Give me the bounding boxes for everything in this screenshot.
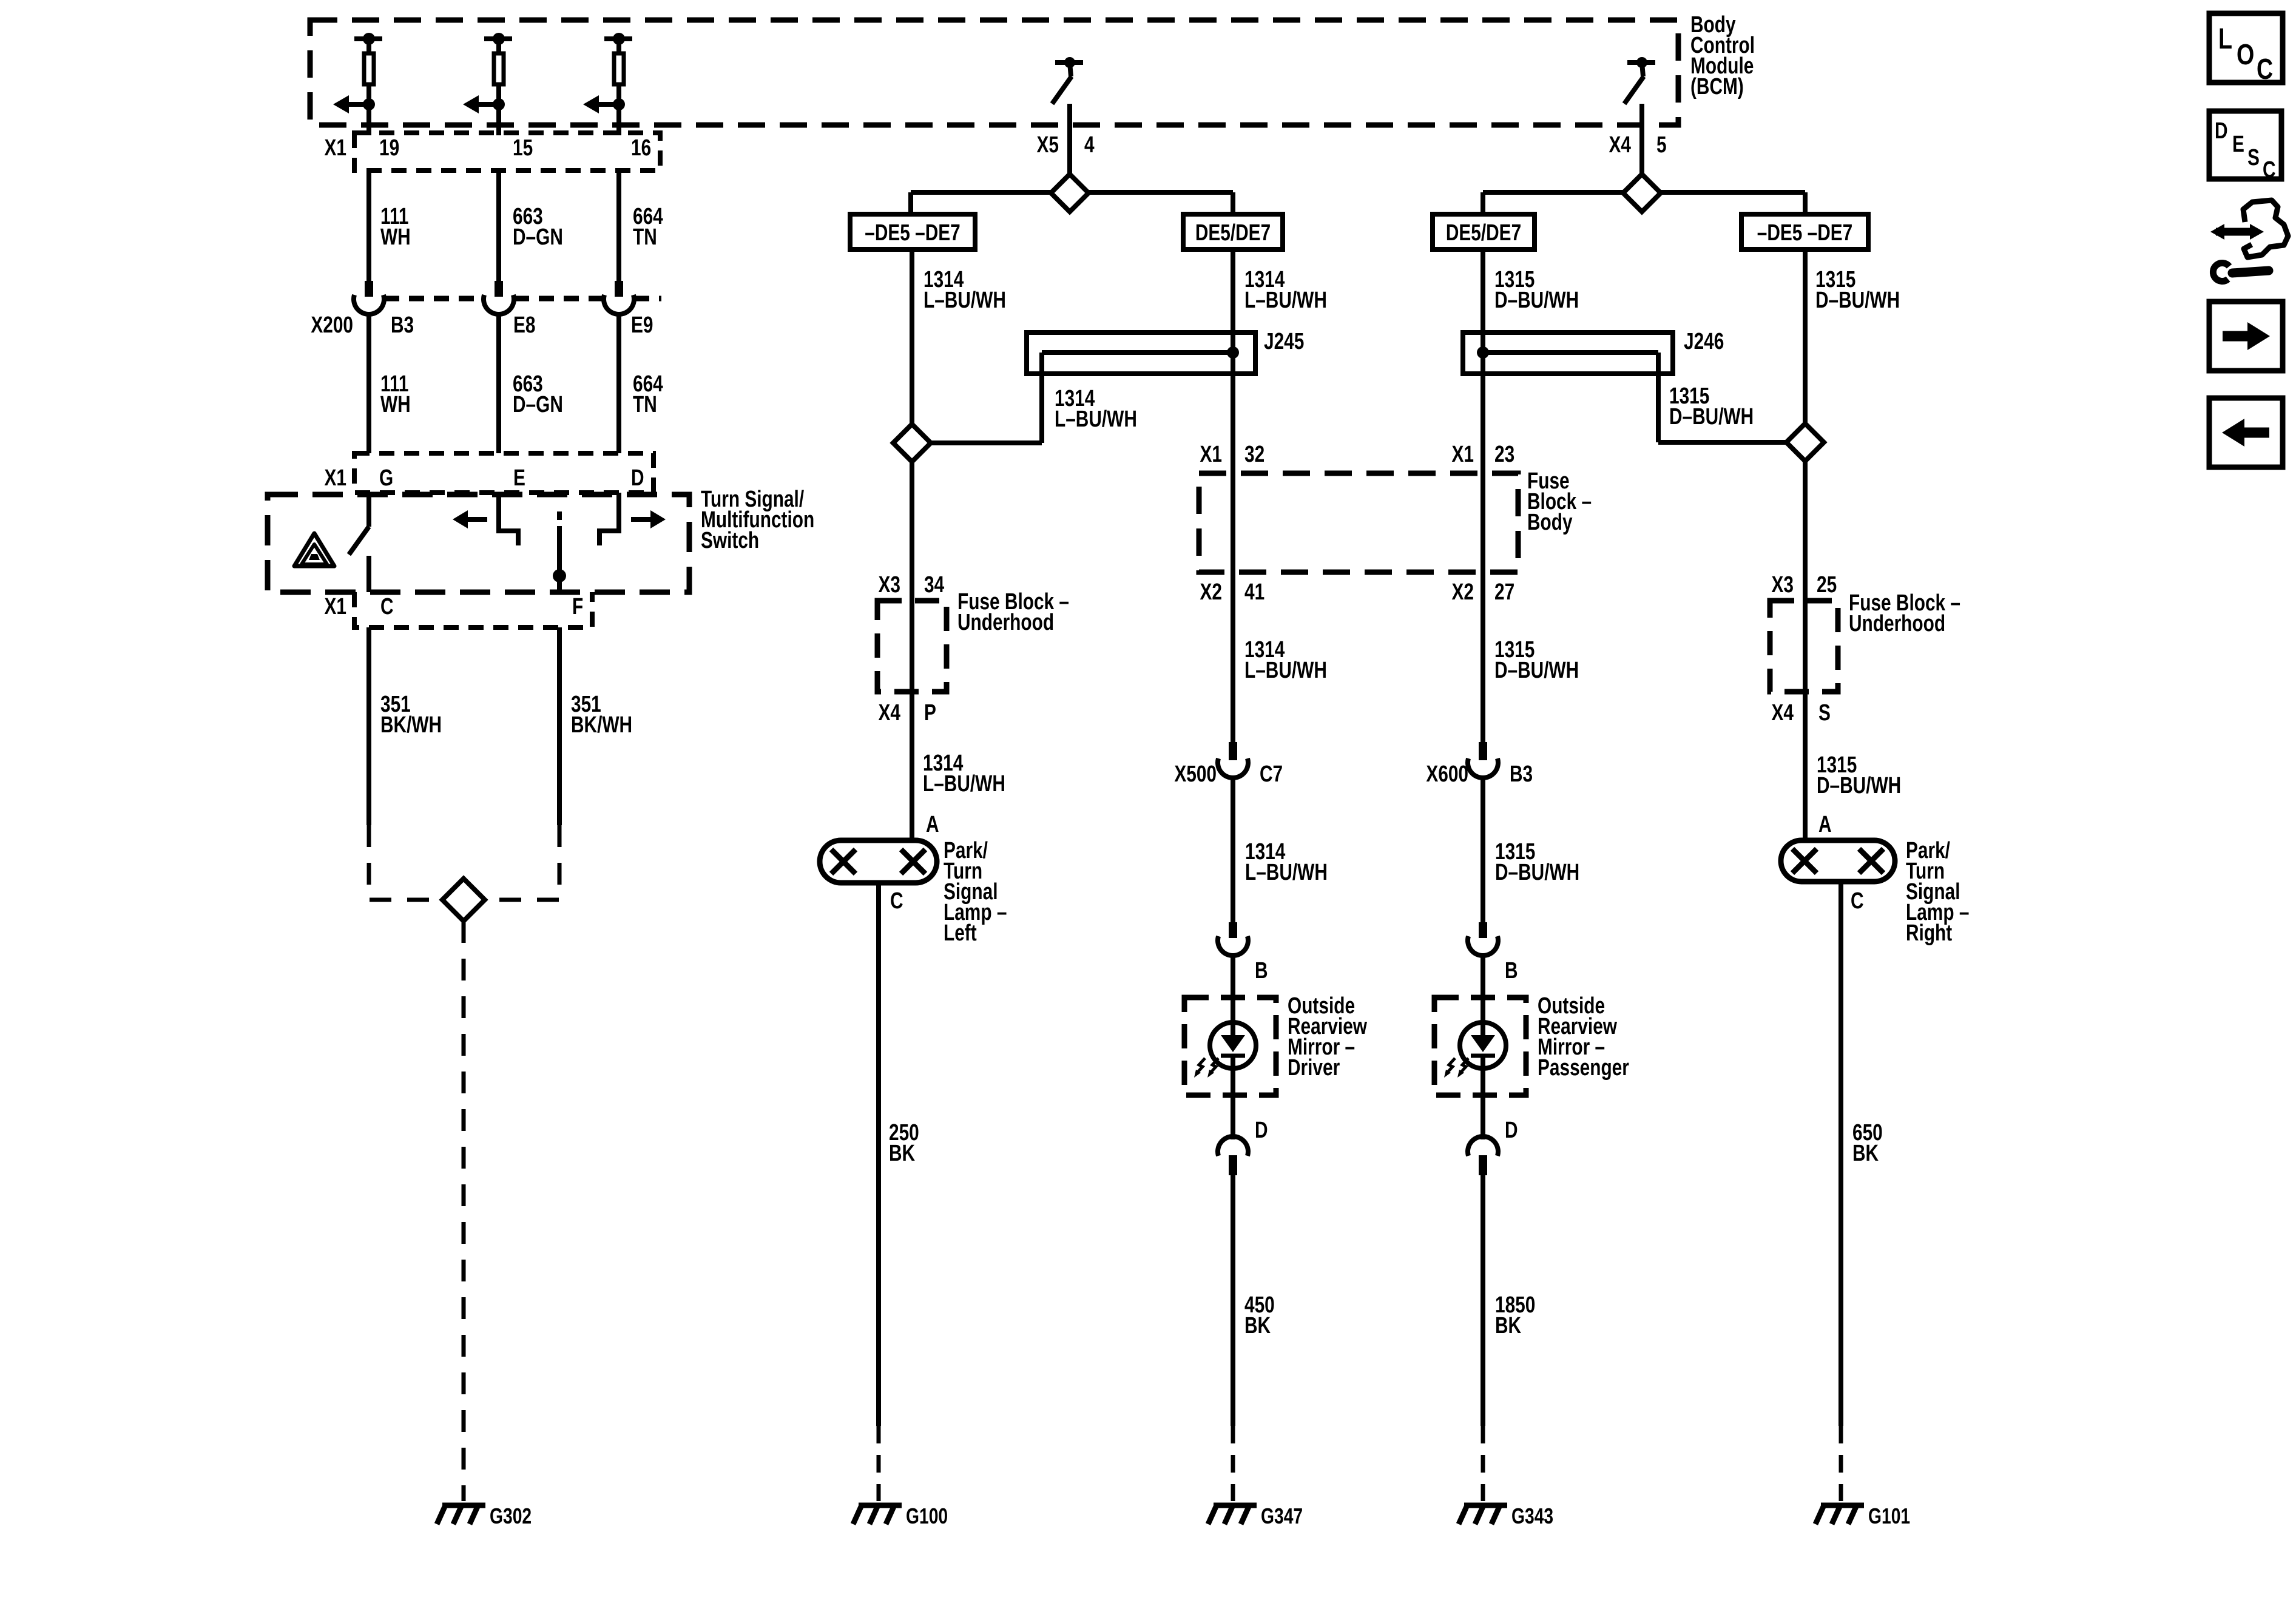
svg-text:(BCM): (BCM)	[1690, 74, 1744, 100]
svg-text:X4: X4	[879, 700, 900, 726]
svg-text:D: D	[2215, 118, 2228, 144]
svg-text:Left: Left	[944, 920, 977, 946]
svg-text:BK: BK	[889, 1141, 915, 1166]
svg-text:B: B	[1255, 958, 1268, 984]
svg-text:C: C	[2263, 157, 2276, 183]
svg-text:G302: G302	[490, 1504, 532, 1528]
svg-text:L–BU/WH: L–BU/WH	[923, 771, 1005, 797]
svg-text:C: C	[890, 888, 903, 914]
svg-text:A: A	[1818, 812, 1832, 837]
svg-text:L: L	[2218, 23, 2232, 55]
svg-text:4: 4	[1084, 132, 1095, 158]
svg-text:X1: X1	[325, 135, 346, 161]
svg-text:BK/WH: BK/WH	[380, 712, 442, 738]
svg-text:D–GN: D–GN	[513, 224, 563, 250]
svg-text:D–BU/WH: D–BU/WH	[1495, 860, 1579, 885]
svg-text:C: C	[1851, 888, 1864, 914]
svg-text:DE5/DE7: DE5/DE7	[1446, 220, 1521, 246]
svg-text:–DE5 –DE7: –DE5 –DE7	[1757, 220, 1853, 246]
svg-text:X2: X2	[1452, 579, 1474, 605]
svg-text:Switch: Switch	[701, 528, 759, 553]
svg-text:E: E	[513, 465, 525, 491]
svg-text:X4: X4	[1609, 132, 1631, 158]
svg-text:S: S	[2247, 145, 2260, 170]
svg-text:X5: X5	[1037, 132, 1059, 158]
svg-text:C7: C7	[1260, 761, 1283, 787]
svg-text:A: A	[926, 812, 939, 837]
svg-text:B3: B3	[391, 312, 414, 338]
svg-text:G101: G101	[1868, 1504, 1910, 1528]
svg-text:X3: X3	[1772, 572, 1794, 598]
svg-text:27: 27	[1494, 579, 1514, 605]
svg-text:L–BU/WH: L–BU/WH	[1055, 407, 1137, 432]
svg-text:D–BU/WH: D–BU/WH	[1817, 773, 1901, 798]
svg-text:D–BU/WH: D–BU/WH	[1815, 288, 1900, 313]
svg-text:TN: TN	[633, 392, 657, 417]
svg-text:X1: X1	[325, 465, 346, 491]
svg-text:19: 19	[379, 135, 399, 161]
svg-text:Body: Body	[1527, 510, 1573, 535]
svg-text:32: 32	[1244, 442, 1264, 467]
svg-text:B: B	[1505, 958, 1518, 984]
svg-text:G: G	[379, 465, 393, 491]
svg-text:C: C	[380, 594, 394, 619]
svg-text:Passenger: Passenger	[1538, 1055, 1629, 1081]
svg-text:D: D	[1505, 1118, 1518, 1143]
svg-text:D–BU/WH: D–BU/WH	[1669, 404, 1754, 430]
svg-text:–DE5 –DE7: –DE5 –DE7	[865, 220, 961, 246]
svg-text:X4: X4	[1772, 700, 1794, 726]
svg-text:25: 25	[1817, 572, 1837, 598]
svg-text:P: P	[924, 700, 936, 726]
svg-text:34: 34	[924, 572, 944, 598]
svg-text:S: S	[1818, 700, 1831, 726]
svg-text:D–BU/WH: D–BU/WH	[1494, 658, 1579, 683]
svg-text:BK: BK	[1495, 1313, 1521, 1338]
svg-text:BK: BK	[1244, 1313, 1271, 1338]
svg-text:D: D	[631, 465, 644, 491]
svg-text:TN: TN	[633, 224, 657, 250]
svg-text:X1: X1	[325, 594, 346, 619]
svg-text:E9: E9	[631, 312, 653, 338]
svg-text:X500: X500	[1174, 761, 1217, 787]
svg-text:F: F	[572, 594, 583, 619]
svg-text:Underhood: Underhood	[1849, 611, 1945, 636]
svg-text:BK/WH: BK/WH	[571, 712, 632, 738]
svg-text:D–GN: D–GN	[513, 392, 563, 417]
svg-text:E: E	[2232, 132, 2244, 157]
svg-text:L–BU/WH: L–BU/WH	[1244, 288, 1327, 313]
svg-text:D: D	[1255, 1118, 1268, 1143]
svg-text:16: 16	[631, 135, 651, 161]
svg-text:G100: G100	[906, 1504, 948, 1528]
svg-text:5: 5	[1656, 132, 1667, 158]
svg-text:X2: X2	[1200, 579, 1222, 605]
svg-text:15: 15	[513, 135, 533, 161]
svg-text:L–BU/WH: L–BU/WH	[1245, 860, 1328, 885]
svg-text:X1: X1	[1452, 442, 1474, 467]
svg-text:41: 41	[1244, 579, 1264, 605]
svg-text:Right: Right	[1906, 920, 1952, 946]
svg-text:D–BU/WH: D–BU/WH	[1494, 288, 1579, 313]
svg-text:G347: G347	[1261, 1504, 1303, 1528]
svg-text:C: C	[2257, 53, 2273, 86]
svg-text:E8: E8	[513, 312, 535, 338]
svg-text:L–BU/WH: L–BU/WH	[923, 288, 1006, 313]
svg-text:G343: G343	[1511, 1504, 1553, 1528]
svg-text:J246: J246	[1684, 329, 1724, 354]
svg-text:B3: B3	[1510, 761, 1533, 787]
svg-text:X200: X200	[311, 312, 353, 338]
svg-text:Underhood: Underhood	[957, 610, 1054, 635]
svg-text:Driver: Driver	[1288, 1055, 1340, 1081]
svg-text:J245: J245	[1264, 329, 1304, 354]
svg-text:X600: X600	[1426, 761, 1468, 787]
svg-text:DE5/DE7: DE5/DE7	[1195, 220, 1271, 246]
svg-text:BK: BK	[1852, 1141, 1879, 1166]
svg-text:O: O	[2237, 39, 2254, 71]
svg-text:L–BU/WH: L–BU/WH	[1244, 658, 1327, 683]
svg-text:WH: WH	[380, 224, 411, 250]
svg-text:X1: X1	[1200, 442, 1222, 467]
svg-text:23: 23	[1494, 442, 1514, 467]
svg-text:X3: X3	[879, 572, 900, 598]
svg-text:WH: WH	[380, 392, 411, 417]
